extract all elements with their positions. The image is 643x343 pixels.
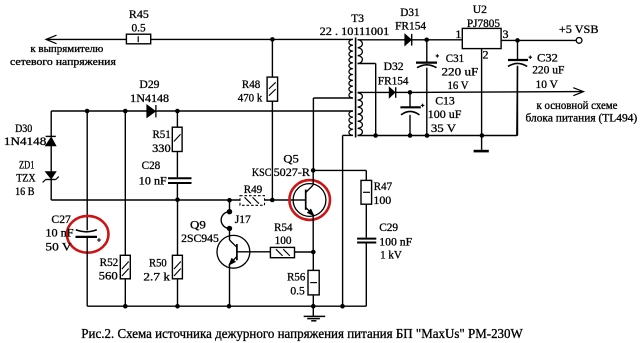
svg-text:1 kV: 1 kV xyxy=(380,247,402,261)
svg-text:560: 560 xyxy=(99,269,118,283)
svg-text:R45: R45 xyxy=(129,7,149,21)
svg-text:сетевого напряжения: сетевого напряжения xyxy=(10,56,116,68)
svg-text:220 uF: 220 uF xyxy=(442,65,479,79)
svg-text:D31: D31 xyxy=(400,5,419,19)
svg-text:0.5: 0.5 xyxy=(290,284,304,298)
svg-text:U2: U2 xyxy=(473,2,487,16)
svg-text:2: 2 xyxy=(483,48,489,62)
svg-text:2SC945: 2SC945 xyxy=(181,231,219,245)
svg-text:Q9: Q9 xyxy=(190,217,206,231)
svg-text:220 uF: 220 uF xyxy=(532,63,564,77)
svg-text:D29: D29 xyxy=(139,77,159,91)
svg-text:T3: T3 xyxy=(351,11,364,25)
svg-text:1N4148: 1N4148 xyxy=(4,134,46,148)
svg-text:100 uF: 100 uF xyxy=(428,107,462,121)
svg-text:D32: D32 xyxy=(384,59,404,73)
svg-text:35 V: 35 V xyxy=(431,121,456,135)
svg-text:J17: J17 xyxy=(235,212,251,226)
svg-text:к выпрямителю: к выпрямителю xyxy=(30,43,103,55)
svg-text:R52: R52 xyxy=(100,255,119,269)
svg-text:16 V: 16 V xyxy=(448,78,469,92)
svg-text:к основной схеме: к основной схеме xyxy=(537,100,618,112)
svg-text:5027-R: 5027-R xyxy=(274,165,310,179)
svg-text:0.5: 0.5 xyxy=(132,21,146,35)
svg-text:TZX: TZX xyxy=(16,171,36,185)
svg-text:R50: R50 xyxy=(149,255,167,269)
svg-text:KSC: KSC xyxy=(252,165,272,179)
svg-text:R48: R48 xyxy=(242,77,260,91)
svg-text:FR154: FR154 xyxy=(395,19,426,33)
svg-text:16 B: 16 B xyxy=(15,184,34,198)
svg-text:C31: C31 xyxy=(446,51,464,65)
svg-text:+5 VSB: +5 VSB xyxy=(559,22,599,36)
svg-text:R56: R56 xyxy=(287,270,305,284)
svg-text:FR154: FR154 xyxy=(378,73,409,87)
svg-text:10 nF: 10 nF xyxy=(45,226,74,240)
svg-text:10 V: 10 V xyxy=(536,77,559,91)
svg-text:R51: R51 xyxy=(153,127,171,141)
svg-text:100: 100 xyxy=(275,233,292,247)
svg-text:D30: D30 xyxy=(15,121,32,135)
svg-text:R49: R49 xyxy=(244,182,263,196)
svg-text:100: 100 xyxy=(373,193,391,207)
svg-text:330: 330 xyxy=(152,141,171,155)
svg-text:C13: C13 xyxy=(435,94,455,108)
svg-text:1: 1 xyxy=(455,27,461,41)
svg-text:ZD1: ZD1 xyxy=(19,158,35,172)
svg-text:Рис.2. Схема источника дежурно: Рис.2. Схема источника дежурного напряже… xyxy=(81,326,523,341)
svg-text:R54: R54 xyxy=(274,220,292,234)
svg-text:22 . 10111001: 22 . 10111001 xyxy=(320,24,390,38)
svg-text:1N4148: 1N4148 xyxy=(130,91,169,105)
svg-text:C28: C28 xyxy=(142,158,161,172)
svg-text:блока питания (TL494): блока питания (TL494) xyxy=(526,113,638,125)
svg-text:2.7 k: 2.7 k xyxy=(143,270,170,284)
svg-text:3: 3 xyxy=(503,27,509,41)
svg-text:C27: C27 xyxy=(51,212,71,226)
svg-text:470 k: 470 k xyxy=(238,90,262,104)
svg-text:10 nF: 10 nF xyxy=(139,174,167,188)
svg-text:Q5: Q5 xyxy=(283,152,298,166)
svg-text:50 V: 50 V xyxy=(45,239,71,253)
svg-text:R47: R47 xyxy=(374,179,392,193)
svg-text:C29: C29 xyxy=(379,220,398,234)
svg-text:PJ7805: PJ7805 xyxy=(467,16,500,30)
